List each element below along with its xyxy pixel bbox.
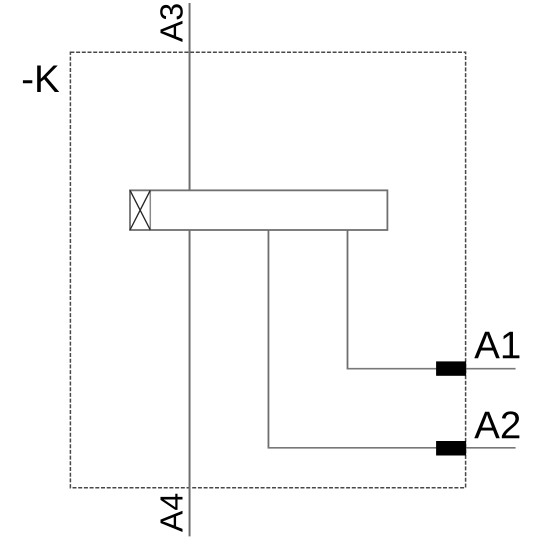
coil X mark diagonal 2 <box>130 190 150 230</box>
terminal label A4 <box>160 494 182 532</box>
wire A3-A4 (coil supply vertical) <box>189 3 191 536</box>
terminal A2 pad <box>436 441 466 456</box>
device tag -K <box>23 66 59 92</box>
dashed device enclosure -K <box>70 52 465 488</box>
wire coil to A1 vertical <box>347 230 349 369</box>
coil electronic section divider <box>149 190 151 230</box>
wire to A1 horizontal <box>347 368 516 370</box>
coil X mark diagonal 1 <box>130 190 150 230</box>
wire to A2 horizontal <box>268 447 516 449</box>
terminal A1 pad <box>436 361 466 375</box>
terminal label A2 <box>474 411 519 438</box>
terminal label A1 <box>474 332 519 358</box>
coil K body <box>130 190 387 230</box>
wire coil to A2 vertical <box>267 230 269 448</box>
terminal label A3 <box>160 4 183 42</box>
